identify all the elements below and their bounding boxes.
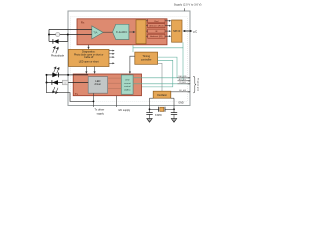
svg-text:Oscillator: Oscillator <box>157 94 167 97</box>
load capacitor C2 <box>171 112 177 114</box>
pin1 line <box>133 77 190 79</box>
Tx block (salmon) <box>73 74 141 96</box>
svg-text:Tx driver: Tx driver <box>95 109 105 112</box>
svg-text:TIA: TIA <box>93 31 97 35</box>
parasitic cap box <box>56 33 60 37</box>
emission arrows top <box>54 67 60 74</box>
node right <box>67 34 69 36</box>
load capacitor C1 <box>146 112 152 114</box>
svg-text:Program (µC): Program (µC) <box>196 78 199 91</box>
svg-text:supply: supply <box>97 112 105 115</box>
ADC U2 sigma-delta <box>113 24 129 39</box>
svg-text:LED open or short: LED open or short <box>79 61 99 64</box>
brace grouping pins <box>193 76 196 93</box>
LED common return wire <box>47 83 94 102</box>
Diagnostics block <box>69 49 110 66</box>
wires Diagnostics to Tx <box>85 67 87 73</box>
sample row Ambient (Red) <box>148 24 165 28</box>
IC outer boundary box <box>68 11 190 106</box>
node top <box>46 74 48 76</box>
teal bus SPI to timing <box>133 42 183 52</box>
svg-text:(DAC): (DAC) <box>124 89 130 92</box>
Timing controller block <box>135 52 158 64</box>
svg-text:Photodiode: Photodiode <box>51 54 65 58</box>
lower input wire <box>49 34 92 36</box>
left vertical wire <box>48 29 50 41</box>
LED circuit: top LED wire <box>47 74 89 76</box>
emission arrows bottom <box>53 87 59 94</box>
crystal leg right <box>173 98 175 112</box>
Oscillator block <box>153 91 171 98</box>
svg-text:Ambient (IR): Ambient (IR) <box>150 35 163 38</box>
photodiode D1 <box>54 39 59 44</box>
Rx block (salmon) <box>77 19 167 45</box>
ground symbol left <box>147 119 152 123</box>
wire C timing to LED control <box>142 60 173 87</box>
LED current control block <box>121 75 133 94</box>
svg-text:rs: rs <box>64 82 66 84</box>
svg-text:LED: LED <box>125 79 130 81</box>
clock wire timing to oscillator <box>158 63 162 91</box>
svg-text:GND: GND <box>178 101 184 104</box>
svg-text:Timing: Timing <box>142 54 150 58</box>
SPI interface box <box>172 20 182 42</box>
wires LED driver to control <box>108 78 122 88</box>
node left <box>48 34 50 36</box>
photodiode circuit: upper input wire <box>49 28 92 30</box>
series resistor boxlet <box>63 80 69 85</box>
LED D3 (bottom, pointing left) <box>52 80 58 85</box>
node at IC edge <box>67 74 69 76</box>
node xtal right <box>173 108 175 110</box>
incident light arrows <box>53 46 59 53</box>
svg-text:current: current <box>124 82 131 85</box>
node xtal left <box>149 108 151 110</box>
sample row IR <box>148 29 165 33</box>
svg-text:driver: driver <box>95 82 102 86</box>
wire ADC to buffer with arrow <box>129 31 133 33</box>
stubs buffer to rows <box>146 21 148 36</box>
pin4 line <box>171 91 190 93</box>
arrows out right of diagnostics <box>109 51 113 64</box>
junction <box>93 101 95 103</box>
left vertical <box>46 75 48 83</box>
svg-text:control: control <box>124 85 131 88</box>
svg-text:Diagnostics:: Diagnostics: <box>82 51 96 54</box>
sample row Red <box>148 19 165 23</box>
wire amp output to ADC <box>103 31 113 33</box>
svg-text:Ambient (Red): Ambient (Red) <box>149 25 163 28</box>
osc stub wires <box>150 97 154 99</box>
SPI down wire to pin2 <box>182 48 184 81</box>
svg-text:SPI I/F: SPI I/F <box>173 30 181 33</box>
LED driver block <box>88 77 107 94</box>
ground symbol right <box>171 119 176 123</box>
svg-text:I2C supply: I2C supply <box>118 109 131 112</box>
bottom LED wire <box>47 82 89 84</box>
right vertical wire <box>67 35 69 42</box>
xtal horizontal wire <box>150 108 159 110</box>
svg-text:Σ-Δ ADC: Σ-Δ ADC <box>116 30 127 34</box>
op-amp TIA U1 <box>92 26 103 39</box>
pin3 line <box>133 83 190 85</box>
svg-text:controller: controller <box>141 58 152 62</box>
LED driver supply wire <box>93 93 95 107</box>
arrows rows to SPI <box>165 21 169 36</box>
crystal X1 <box>158 107 160 112</box>
Tx control supply pin <box>115 96 117 107</box>
node bottom <box>46 82 48 84</box>
dashed analog-section box <box>71 17 188 102</box>
bidirectional arrow to uC <box>184 30 192 32</box>
LED D2 (top, pointing right) <box>52 73 58 78</box>
bottom wire <box>49 40 68 42</box>
svg-text:8 MHz: 8 MHz <box>155 115 162 117</box>
supply pin stub <box>183 8 185 11</box>
wire timing left to Tx <box>130 56 135 73</box>
svg-text:Rx: Rx <box>81 21 85 25</box>
wire B timing to pin1 <box>158 57 177 78</box>
svg-text:Supply (2.0 V to 3.6 V): Supply (2.0 V to 3.6 V) <box>174 3 202 7</box>
teal bus tick to Rx <box>132 45 134 48</box>
buffer register bar <box>136 20 146 44</box>
svg-text:Tx: Tx <box>75 92 79 96</box>
sample row Ambient (IR) <box>148 34 165 38</box>
pin2 line <box>183 80 190 82</box>
svg-text:Cable off: Cable off <box>84 57 94 59</box>
crystal leg left <box>149 98 151 112</box>
wire Rx to Diagnostics <box>88 45 90 48</box>
